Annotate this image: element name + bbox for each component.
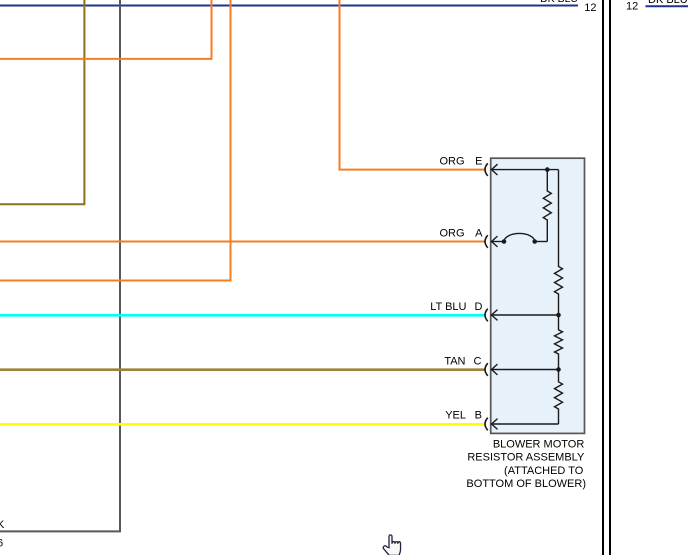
- svg-text:BOTTOM OF BLOWER): BOTTOM OF BLOWER): [466, 478, 586, 490]
- connector socket E: [485, 163, 488, 176]
- resistor R4 (C to B): [555, 370, 563, 425]
- svg-text:C: C: [474, 356, 482, 368]
- junction dot C row: [556, 367, 561, 372]
- svg-text:(ATTACHED TO: (ATTACHED TO: [504, 465, 584, 477]
- wire DK BLU right segment: [646, 5, 688, 7]
- cursor hand pointer: [383, 535, 400, 555]
- wire A row to R1: [535, 241, 548, 243]
- svg-text:RESISTOR ASSEMBLY: RESISTOR ASSEMBLY: [467, 451, 585, 463]
- resistor R3 (D to C): [555, 315, 563, 370]
- svg-text:D: D: [475, 301, 483, 313]
- junction dot E row: [545, 167, 550, 172]
- pin E arrow: [492, 164, 498, 175]
- svg-text:6: 6: [0, 538, 3, 550]
- svg-text:A: A: [475, 228, 483, 240]
- svg-text:DK BLU: DK BLU: [648, 0, 688, 6]
- pin B arrow: [492, 419, 498, 430]
- svg-text:E: E: [475, 156, 482, 168]
- junction dot A right: [532, 239, 537, 244]
- pin A internal wire: [492, 241, 505, 243]
- blower motor resistor assembly box: [491, 158, 585, 433]
- svg-text:TAN: TAN: [444, 356, 465, 368]
- wire ORG second vertical corner path: [0, 0, 231, 281]
- jumper arc A row: [504, 233, 535, 241]
- junction dot A left: [502, 239, 507, 244]
- svg-text:K: K: [0, 519, 5, 531]
- pin E internal wire: [492, 169, 559, 171]
- connector socket D: [485, 309, 488, 322]
- wire YEL to terminal B: [0, 423, 486, 426]
- connector socket A: [485, 235, 488, 248]
- wire OLV vertical with corner to left edge: [0, 0, 84, 204]
- wire DK BLU main horizontal: [0, 5, 578, 7]
- junction dot D row: [556, 313, 561, 318]
- svg-text:ORG: ORG: [439, 156, 464, 168]
- pin C arrow: [492, 364, 498, 375]
- pin D internal wire: [492, 314, 559, 316]
- svg-text:12: 12: [584, 2, 596, 14]
- wire TAN to terminal C: [0, 368, 486, 371]
- resistor chain vertical (E row down): [555, 170, 563, 315]
- svg-text:DK BLU: DK BLU: [540, 0, 578, 5]
- wire LT BLU to terminal D: [0, 314, 486, 317]
- wire ORG to terminal E: [340, 0, 486, 170]
- svg-text:BLOWER MOTOR: BLOWER MOTOR: [493, 439, 585, 451]
- svg-text:12: 12: [626, 1, 638, 13]
- svg-text:B: B: [475, 410, 482, 422]
- svg-text:LT BLU: LT BLU: [430, 301, 466, 313]
- page break double line: [602, 0, 604, 555]
- wire ORG upper-left corner path: [0, 0, 212, 59]
- svg-text:YEL: YEL: [445, 410, 466, 422]
- pin A arrow: [492, 236, 498, 247]
- connector socket B: [485, 418, 488, 431]
- wire GRY (BLK) vertical down to bottom-left exit: [0, 0, 120, 531]
- svg-text:ORG: ORG: [439, 228, 464, 240]
- pin C internal wire: [492, 369, 559, 371]
- pin D arrow: [492, 310, 498, 321]
- pin B internal wire: [492, 423, 559, 425]
- connector socket C: [485, 363, 488, 376]
- wire ORG to terminal A: [0, 241, 486, 243]
- resistor R1 (E to A): [543, 170, 551, 242]
